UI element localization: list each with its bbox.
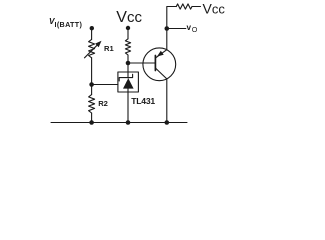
svg-text:v: v <box>187 23 192 32</box>
svg-text:Vcc: Vcc <box>203 1 226 17</box>
svg-text:R1: R1 <box>104 44 114 53</box>
svg-text:Vcc: Vcc <box>116 9 142 26</box>
svg-text:R2: R2 <box>98 99 108 108</box>
svg-text:TL431: TL431 <box>131 96 155 106</box>
svg-text:O: O <box>192 25 198 34</box>
svg-text:I(BATT): I(BATT) <box>55 20 83 29</box>
